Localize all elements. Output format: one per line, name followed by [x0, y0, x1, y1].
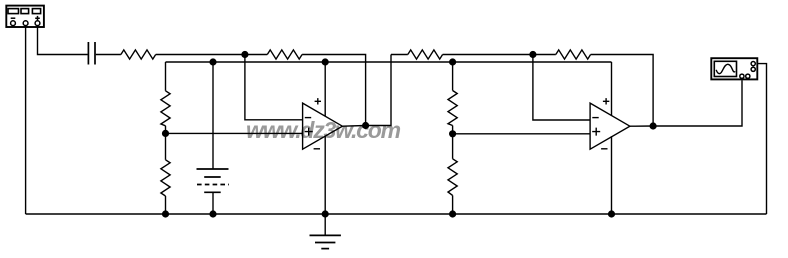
U1 label: - (V- supply) [314, 148, 320, 150]
wire: node C down to U2 inverting input [533, 55, 590, 121]
wire: supply rail down to divider R3 [165, 62, 167, 91]
junction dot: U2 V- at ground rail [608, 210, 615, 217]
U2 label: + (non-inverting input) [592, 128, 600, 136]
wire: supply rail down to stage-2 divider R7 [452, 62, 454, 91]
resistor R3 (stage-1 bias divider, upper) [161, 91, 170, 126]
wire: R4 to ground rail [165, 196, 167, 214]
generator - terminal [11, 21, 16, 26]
junction dot: battery at ground rail [209, 210, 216, 217]
U1 label: + (V+ supply) [315, 98, 321, 104]
wire: generator common down the left side [25, 26, 27, 214]
resistor R4 (stage-1 bias divider, lower) [161, 160, 170, 196]
junction dot: U1 V- at ground rail [322, 210, 329, 217]
scope terminal (bottom left) [740, 74, 744, 78]
U1 label: + (non-inverting input) [305, 128, 313, 136]
U2 label: - (inverting input) [592, 117, 598, 119]
wire: node D down to R8 [452, 134, 454, 159]
junction dot: R4 at ground rail [162, 210, 169, 217]
wire: battery V1 to ground rail [212, 192, 214, 214]
wire: R7 to node D [452, 126, 454, 134]
capacitor C1 [88, 42, 95, 65]
junction dot: battery top on supply rail [209, 58, 216, 65]
node D junction dot (stage-2 bias midpoint) [449, 130, 456, 137]
wire: node D to U2 non-inverting input [453, 133, 590, 135]
node C junction dot [529, 51, 536, 58]
wire: node B down to R4 [165, 133, 167, 159]
node A junction dot [241, 51, 248, 58]
junction dot: R8 at ground rail [449, 210, 456, 217]
op-amp U2 [590, 98, 630, 214]
wire: positive supply rail (y=62) [166, 61, 612, 63]
ground symbol [310, 214, 341, 249]
node B junction dot (stage-1 bias midpoint) [162, 130, 169, 137]
oscilloscope [711, 58, 757, 79]
watermark www.dz3w.com [246, 117, 546, 144]
wire: capacitor to R1 [96, 54, 121, 56]
scope terminal (right lower) [751, 67, 755, 71]
wire: supply rail down to U2 V+ pin [611, 62, 613, 116]
wire: node B to U1 non-inverting input [166, 132, 303, 134]
scope screen sine wave [716, 64, 735, 73]
scope terminal (bottom right) [746, 74, 750, 78]
wire: riser to R5 [391, 54, 408, 56]
resistor R5 (stage-2 series resistor) [408, 50, 443, 59]
wire: bottom ground rail [26, 213, 767, 215]
U1 V- supply pin [324, 136, 326, 214]
battery V1 [197, 169, 230, 192]
wire: node A down to U1 inverting input [245, 55, 303, 120]
wire: R2 to stage-1 output riser [302, 55, 366, 126]
op-amp U1 [303, 62, 343, 214]
resistor R8 (stage-2 bias divider, lower) [448, 159, 457, 196]
generator + terminal [35, 21, 40, 26]
U2 V- supply pin [611, 136, 613, 214]
wire: supply rail down to battery V1 [212, 62, 214, 169]
wire: oscilloscope right terminal down to ground rail [757, 64, 767, 214]
wire: R5 to node C [443, 54, 556, 56]
generator common terminal [23, 21, 28, 26]
wire: U1 output to output node [342, 55, 391, 127]
resistor R6 (stage-2 feedback resistor) [556, 50, 591, 59]
resistor R7 (stage-2 bias divider, upper) [448, 91, 457, 126]
wire: U2 output to scope [630, 80, 742, 126]
resistor R1 (series input resistor) [121, 50, 156, 59]
junction dot: stage-1 output node [362, 122, 369, 129]
U1 V+ supply pin [324, 62, 326, 116]
scope terminal (right upper) [751, 62, 755, 66]
resistor R2 (stage-1 feedback resistor) [267, 50, 302, 59]
wire: generator + terminal to capacitor [38, 26, 88, 55]
wire: R8 to ground rail [452, 195, 454, 214]
U1 label: - (inverting input) [305, 117, 311, 119]
junction dot: stage-2 output node [650, 122, 657, 129]
U2 label: + (V+ supply) [603, 98, 609, 104]
junction dot: stage-2 divider top on supply rail [449, 58, 456, 65]
U2 label: - (V- supply) [601, 148, 607, 150]
junction dot: U1 V+ pin on supply rail [322, 58, 329, 65]
wire: R6 to stage-2 output riser [591, 55, 654, 127]
wire: R1 to node A [156, 54, 268, 56]
wire: R3 to node B (U1 + bias node) [165, 126, 167, 134]
function generator [6, 6, 44, 27]
